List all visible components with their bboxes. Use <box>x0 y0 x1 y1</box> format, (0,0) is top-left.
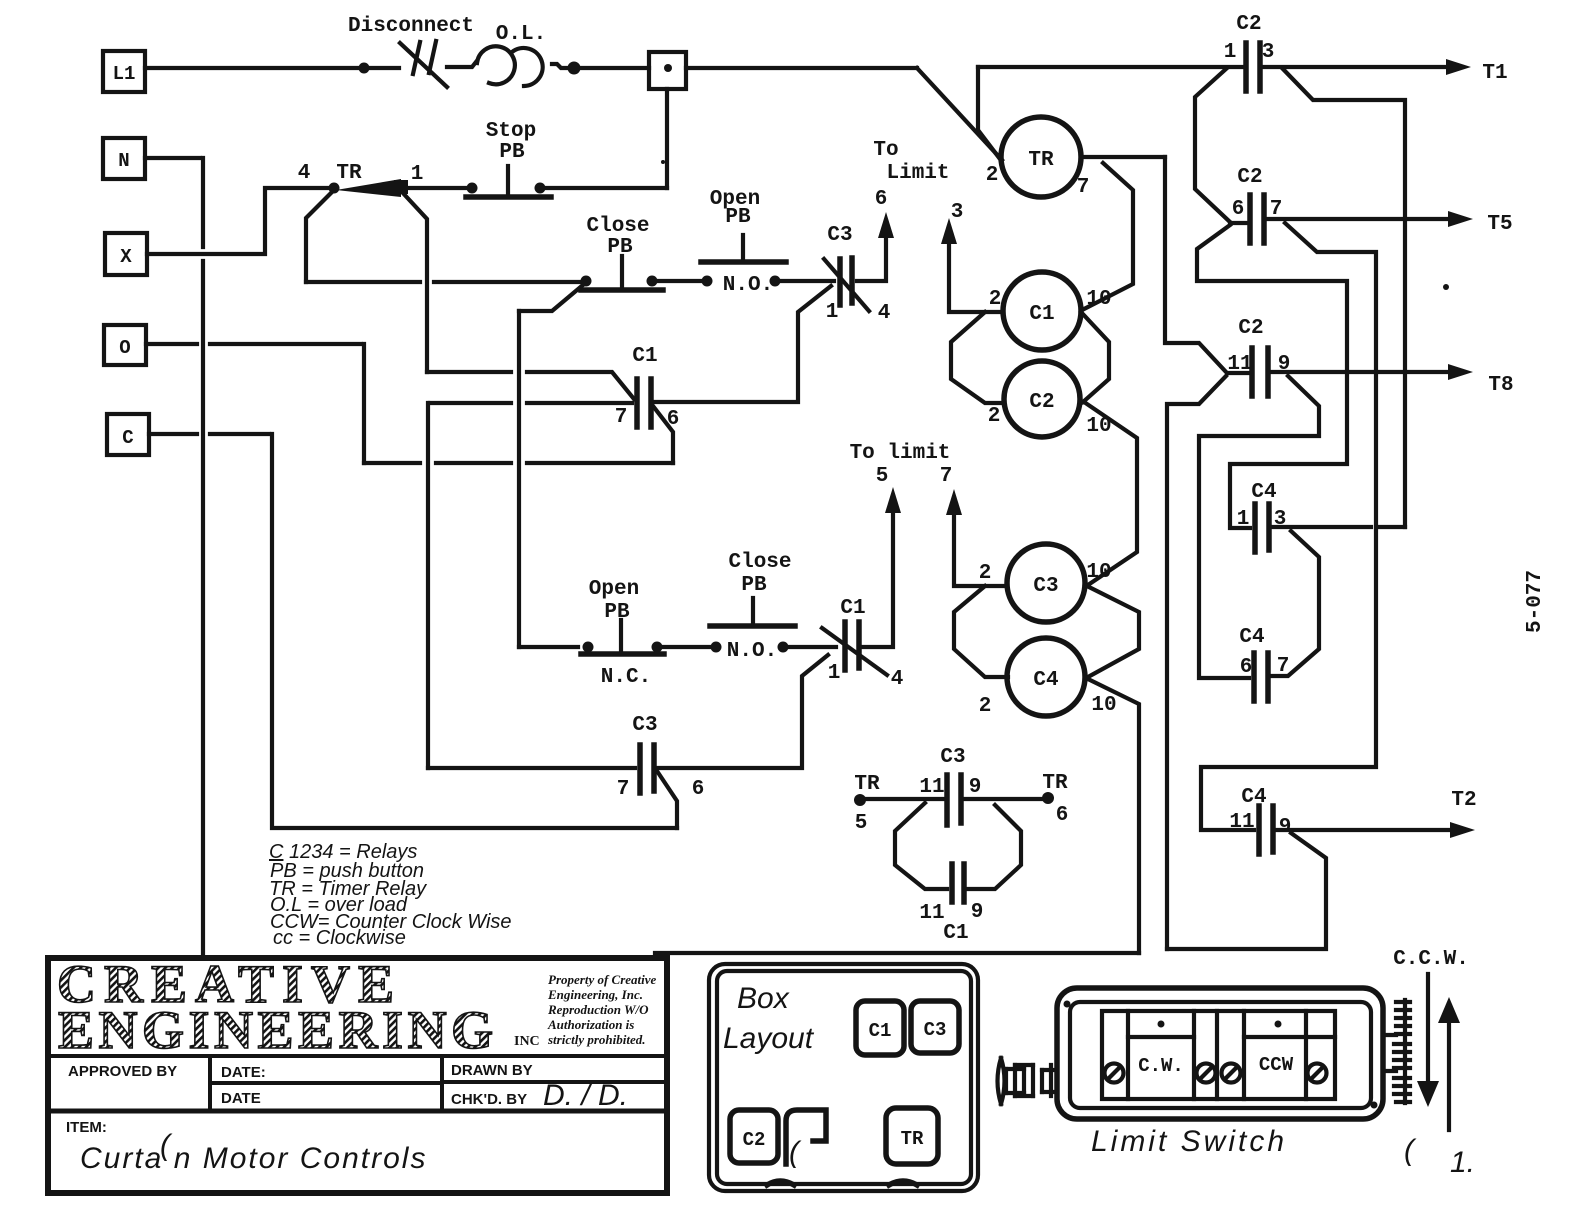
svg-text:DATE:: DATE: <box>221 1064 266 1081</box>
arrow to limit 6 <box>878 212 894 238</box>
wire C2 11-9 output to T8 <box>1272 364 1473 380</box>
svg-text:N.O.: N.O. <box>727 640 777 663</box>
svg-text:C.C.W.: C.C.W. <box>1393 948 1469 971</box>
svg-text:T5: T5 <box>1487 213 1512 236</box>
arrow 3 to C1 coil <box>941 218 1003 312</box>
wire C vertical down and bottom rail <box>272 434 677 828</box>
svg-text:Layout: Layout <box>723 1022 815 1055</box>
limit switch body <box>1057 988 1383 1119</box>
wire TR contact to Stop PB <box>408 186 468 190</box>
svg-text:C3: C3 <box>940 746 965 769</box>
contact C3 1-4 normally closed <box>824 258 869 311</box>
svg-text:PB: PB <box>725 206 751 229</box>
wire X to TR contact pin 4 <box>147 188 330 254</box>
relay box TR <box>886 1108 938 1164</box>
svg-text:1: 1 <box>826 301 839 324</box>
pushbutton Close PB normally open <box>710 598 795 626</box>
svg-text:TR: TR <box>1028 149 1054 172</box>
svg-text:7: 7 <box>617 778 630 801</box>
svg-text:APPROVED BY: APPROVED BY <box>68 1063 177 1080</box>
svg-text:Limit Switch: Limit Switch <box>1091 1125 1287 1158</box>
svg-text:2: 2 <box>986 164 999 187</box>
relay box C1 <box>856 1001 904 1055</box>
svg-text:T1: T1 <box>1482 62 1507 85</box>
svg-text:C4: C4 <box>1251 481 1276 504</box>
wire bypass octagon to C1 11-9 <box>895 803 1021 889</box>
title block outer frame <box>48 958 667 1193</box>
svg-text:TR: TR <box>901 1128 924 1150</box>
node dot <box>711 642 722 653</box>
relay coil TR <box>1001 117 1081 197</box>
pushbutton Open PB normally open <box>701 235 786 262</box>
wire square to diagonal <box>686 66 917 70</box>
wire C2 pin9 bypass down to C4 6-7 input <box>1199 376 1319 678</box>
wire N long vertical to title block <box>201 158 205 956</box>
svg-text:C2: C2 <box>1238 317 1263 340</box>
svg-text:cc = Clockwise: cc = Clockwise <box>273 927 406 949</box>
svg-text:Limit: Limit <box>886 162 949 185</box>
wire C1 pin6 drop to bottom rung <box>653 406 673 463</box>
stray dot <box>661 160 665 164</box>
pushbutton Stop PB <box>466 166 551 197</box>
svg-text:C3: C3 <box>827 224 852 247</box>
svg-text:6: 6 <box>1232 198 1245 221</box>
wire TR pin4 drop to rung2 <box>306 190 334 282</box>
svg-text:CCW: CCW <box>1259 1054 1294 1076</box>
wire TR pin7 to right vertical <box>1081 155 1165 159</box>
svg-text:TR: TR <box>1042 772 1068 795</box>
node junction dot left of disconnect <box>359 63 370 74</box>
gear rack <box>1383 1000 1410 1103</box>
wire C4 pin10 down to bottom rail <box>1088 679 1139 953</box>
svg-text:2: 2 <box>979 562 992 585</box>
svg-text:11: 11 <box>919 776 944 799</box>
terminal box X <box>105 233 147 275</box>
node dot <box>770 276 781 287</box>
stray dot <box>1443 284 1449 290</box>
terminal box L1 <box>103 51 145 92</box>
wire rung from TR pin1 to C1 contact <box>427 372 634 399</box>
wire C3 contact to limit arrow 6 <box>857 238 886 281</box>
wire C3 pin6 drop to C rail <box>657 771 677 828</box>
panel feet <box>767 1181 917 1185</box>
svg-text:C1: C1 <box>632 345 657 368</box>
svg-text:C3: C3 <box>924 1019 947 1041</box>
wire vertical C1 left to second C3 rung <box>426 403 430 768</box>
wire disconnect to O.L. <box>447 62 476 67</box>
svg-text:Property of Creative: Property of Creative <box>548 972 657 987</box>
svg-text:C4: C4 <box>1239 626 1264 649</box>
svg-text:C3: C3 <box>1033 575 1058 598</box>
wire C3 pin1 drop to C1 contact output <box>653 286 831 402</box>
svg-text:Disconnect: Disconnect <box>348 15 474 38</box>
wire N.O. to C1 contact <box>789 645 836 649</box>
svg-text:4: 4 <box>891 668 904 691</box>
wire C3 C4 left bypass <box>954 586 1008 677</box>
pushbutton Open PB normally closed <box>581 620 664 654</box>
svg-text:C3: C3 <box>632 714 657 737</box>
property notice <box>547 972 657 1047</box>
relay coil C1 <box>1003 272 1081 350</box>
node dot <box>778 642 789 653</box>
svg-text:C2: C2 <box>1237 166 1262 189</box>
node TR pin 6 dot <box>1042 792 1054 804</box>
svg-text:ENGINEERING: ENGINEERING <box>58 1000 498 1060</box>
wire Stop PB to square drop <box>546 186 667 190</box>
contact C4 1-3 <box>1255 504 1269 552</box>
relay coil C3 <box>1007 544 1085 622</box>
svg-text:4: 4 <box>298 162 311 185</box>
title block dividers <box>48 1056 667 1111</box>
relay box C3 <box>911 1001 959 1053</box>
svg-text:1: 1 <box>1237 508 1250 531</box>
svg-text:C4: C4 <box>1241 786 1266 809</box>
wire C2 6-7 output branch down to T2 loop <box>1201 223 1376 830</box>
svg-text:Engineering, Inc.: Engineering, Inc. <box>547 987 643 1002</box>
svg-text:TR: TR <box>854 773 880 796</box>
svg-text:C1: C1 <box>1029 303 1054 326</box>
svg-text:6: 6 <box>1240 656 1253 679</box>
svg-text:4: 4 <box>878 302 891 325</box>
svg-text:O: O <box>119 337 130 359</box>
svg-text:2: 2 <box>988 405 1001 428</box>
overload heater O.L. <box>477 46 543 86</box>
arrow down ccw <box>1417 974 1439 1107</box>
wire rung under C1 contact <box>364 461 673 465</box>
svg-text:C2: C2 <box>1029 391 1054 414</box>
shaft actuator left <box>998 1058 1058 1104</box>
box layout panel <box>709 964 978 1191</box>
contact C3 11-9 <box>947 775 961 825</box>
svg-text:9: 9 <box>971 901 984 924</box>
timer relay contact TR flag <box>336 179 408 197</box>
terminal box O <box>104 325 146 365</box>
svg-text:To limit: To limit <box>850 442 951 465</box>
wire TR5 to C3 11-9 <box>862 797 945 801</box>
contact C4 11-9 <box>1259 806 1273 854</box>
svg-text:7: 7 <box>1077 176 1090 199</box>
wire Close PB to N.O. dot <box>658 279 704 283</box>
wire O to corner <box>146 342 361 346</box>
svg-text:C.W.: C.W. <box>1138 1055 1184 1077</box>
svg-text:N.C.: N.C. <box>601 666 651 689</box>
svg-text:N: N <box>118 150 129 172</box>
svg-text:11: 11 <box>919 902 944 925</box>
contact C4 6-7 <box>1254 653 1268 701</box>
relay coil C2 <box>1004 361 1080 437</box>
svg-text:T2: T2 <box>1451 789 1476 812</box>
svg-text:PB: PB <box>741 574 767 597</box>
pushbutton Close PB normally closed <box>581 256 664 290</box>
svg-text:Curta n Motor Controls: Curta n Motor Controls <box>80 1142 427 1175</box>
wire O corner down to rung <box>362 344 366 463</box>
wire N to vertical <box>145 156 200 160</box>
wire first control rung <box>306 280 583 284</box>
svg-text:C1: C1 <box>840 597 865 620</box>
wire C to corner <box>149 432 269 436</box>
svg-text:O.L.: O.L. <box>496 23 546 46</box>
wire C1 pin10 up to TR pin7 <box>1084 163 1133 309</box>
contact C1 11-9 <box>952 864 964 902</box>
svg-text:10: 10 <box>1086 561 1111 584</box>
svg-text:CHK'D. BY: CHK'D. BY <box>451 1091 527 1108</box>
svg-text:9: 9 <box>1279 816 1292 839</box>
wire second control rung <box>519 645 578 649</box>
wire bottom rail left <box>655 951 1139 955</box>
wire C3 C4 right bypass <box>1085 585 1139 677</box>
svg-text:1: 1 <box>828 662 841 685</box>
contact C1 7-6 <box>637 379 651 427</box>
svg-text:7: 7 <box>615 406 628 429</box>
svg-text:Authorization is: Authorization is <box>547 1017 634 1032</box>
svg-text:C2: C2 <box>743 1129 766 1151</box>
wire C2 1-3 output branch down <box>1283 69 1405 527</box>
svg-text:DATE: DATE <box>221 1090 261 1107</box>
svg-text:5-077: 5-077 <box>1524 570 1547 633</box>
contact C1 1-4 normally closed <box>822 622 887 675</box>
svg-text:C1: C1 <box>943 922 968 945</box>
contact C2 6-7 <box>1250 195 1264 243</box>
svg-text:C1: C1 <box>869 1020 892 1042</box>
wire C3 11-9 to TR6 <box>964 797 1044 801</box>
svg-text:ITEM:: ITEM: <box>66 1119 107 1136</box>
wire C2 pin11 bypass down to bottom U <box>1167 376 1226 949</box>
svg-text:1: 1 <box>1224 41 1237 64</box>
svg-text:PB: PB <box>607 236 633 259</box>
node TR pin 5 dot <box>854 794 866 806</box>
svg-text:Close: Close <box>586 215 649 238</box>
svg-text:9: 9 <box>969 776 982 799</box>
wire C1 contact to limit arrow 5 <box>863 512 893 647</box>
contact C2 11-9 <box>1252 348 1268 396</box>
wire long vertical to Open PB rung <box>517 311 521 647</box>
wire C2 1-3 input bypass to C2 6-7 <box>1195 69 1230 222</box>
terminal box C <box>107 414 149 455</box>
wire square drop to stop rung <box>665 89 669 188</box>
wire second C3 rung left <box>428 766 635 770</box>
screw terminals <box>1105 1064 1327 1083</box>
wire rung into C1 contact left <box>430 401 632 405</box>
svg-text:7: 7 <box>940 465 953 488</box>
svg-text:N.O.: N.O. <box>723 274 773 297</box>
node dot <box>702 276 713 287</box>
svg-text:To: To <box>873 139 898 162</box>
fuse square <box>649 52 686 89</box>
arrow to limit 5 <box>885 487 901 513</box>
relay box C2 <box>730 1110 778 1163</box>
terminal box N <box>103 138 145 179</box>
svg-text:1: 1 <box>411 163 424 186</box>
wire C2 pin10 down to C3 coil <box>1084 402 1137 585</box>
wire C4 1-3 to C4 6-7 right bypass <box>1272 531 1319 676</box>
arrow 7 to C3 coil <box>946 489 1007 586</box>
svg-text:2: 2 <box>979 695 992 718</box>
wire C1 C2 right bypass <box>1081 312 1109 402</box>
svg-text:C: C <box>122 427 133 449</box>
disconnect switch <box>400 41 447 87</box>
relay coil C4 <box>1007 638 1085 716</box>
wire N.O. to C3 contact <box>781 279 834 283</box>
svg-text:D. / D.: D. / D. <box>543 1079 628 1112</box>
svg-text:5: 5 <box>876 465 889 488</box>
svg-text:10: 10 <box>1091 694 1116 717</box>
svg-text:5: 5 <box>855 812 868 835</box>
svg-text:Close: Close <box>728 551 791 574</box>
svg-text:1.: 1. <box>1450 1146 1475 1179</box>
contact C2 1-3 <box>1246 43 1260 91</box>
limit switch inner frame <box>1102 1011 1335 1099</box>
svg-text:6: 6 <box>1056 804 1069 827</box>
wire bottom U to T2 loop <box>1167 833 1326 949</box>
wire Open PB to N.O. dot <box>663 645 713 649</box>
wire corner down to TR pin 2 <box>978 67 1000 159</box>
contact C3 7-6 <box>640 745 654 793</box>
svg-text:Reproduction W/O: Reproduction W/O <box>547 1002 649 1017</box>
svg-text:PB: PB <box>499 141 525 164</box>
wire C1 pin1 drop to C3 rung output <box>657 655 828 768</box>
svg-text:7: 7 <box>1277 655 1290 678</box>
wire O.L. to fuse square <box>552 64 649 68</box>
svg-text:T8: T8 <box>1488 374 1513 397</box>
wire C2 6-7 lower bypass to C4 1-3 input <box>1197 223 1347 528</box>
svg-text:3: 3 <box>1262 41 1275 64</box>
wire C1 C2 left bypass <box>951 312 1004 403</box>
svg-text:3: 3 <box>951 201 964 224</box>
svg-text:Open: Open <box>589 578 639 601</box>
svg-text:strictly prohibited.: strictly prohibited. <box>547 1032 646 1047</box>
svg-text:L1: L1 <box>113 63 136 85</box>
svg-text:INC: INC <box>514 1034 540 1049</box>
wire L1 to disconnect <box>145 66 399 70</box>
arrow up cw <box>1438 997 1460 1130</box>
svg-text:11: 11 <box>1229 811 1254 834</box>
node TR pin 4 dot <box>329 183 340 194</box>
svg-text:Box: Box <box>737 982 790 1015</box>
wire TR pin1 drop <box>402 192 427 372</box>
wire diagonal down to TR coil pin 2 <box>917 68 1002 160</box>
wire C2 6-7 output to T5 <box>1267 211 1473 227</box>
svg-text:TR: TR <box>336 162 362 185</box>
wire top rail to C2 contact <box>978 65 1243 69</box>
wire C2 1-3 output to T1 <box>1264 59 1471 75</box>
svg-text:6: 6 <box>692 778 705 801</box>
svg-text:C2: C2 <box>1236 13 1261 36</box>
svg-text:PB: PB <box>604 601 630 624</box>
svg-text:C4: C4 <box>1033 669 1058 692</box>
svg-text:X: X <box>120 246 132 268</box>
wire C4 11-9 output to T2 <box>1276 822 1475 838</box>
wire C4 1-3 output to right vertical <box>1273 525 1405 529</box>
svg-text:11: 11 <box>1227 353 1252 376</box>
node junction dot right of O.L. <box>568 62 581 75</box>
wire TR pin7 vertical down to C2 11 contact <box>1165 157 1250 373</box>
svg-text:2: 2 <box>989 288 1002 311</box>
svg-text:DRAWN BY: DRAWN BY <box>451 1062 533 1079</box>
svg-text:6: 6 <box>875 188 888 211</box>
partial relay box outline <box>786 1110 826 1169</box>
svg-text:Stop: Stop <box>486 120 536 143</box>
wire stub Close PB to x519 vertical <box>519 285 583 311</box>
